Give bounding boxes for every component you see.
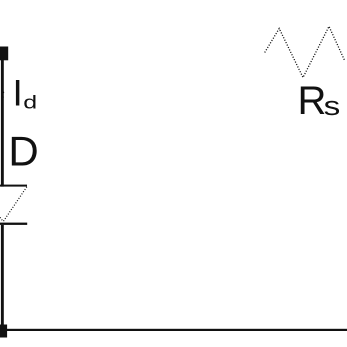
wire (vertical, above diode) — [1, 57, 4, 187]
svg-text:R: R — [298, 79, 327, 123]
svg-text:D: D — [8, 127, 38, 174]
diode D anode bar — [0, 185, 27, 187]
svg-text:d: d — [23, 91, 37, 112]
svg-text:s: s — [324, 92, 341, 121]
current arrow Id fragment — [2, 92, 4, 94]
resistor Rs zigzag — [265, 26, 345, 77]
node square top-left — [0, 47, 8, 61]
wire (bottom horizontal) — [0, 329, 347, 331]
diode D triangle left edge fragment — [0, 217, 3, 221]
svg-text:I: I — [13, 72, 23, 113]
node square bottom-left — [0, 325, 7, 338]
diode D triangle right edge — [3, 187, 27, 222]
wire (vertical, below diode) — [1, 225, 4, 330]
diode D cathode bar — [0, 223, 27, 225]
